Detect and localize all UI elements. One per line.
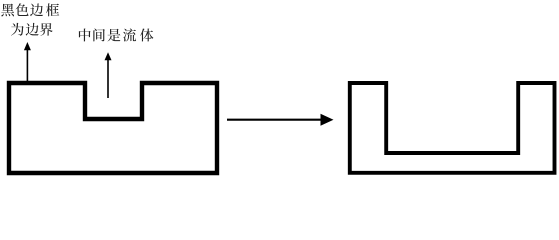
label: 中间是流体 (middle is fluid) bbox=[79, 28, 153, 41]
left block: rectangle with top notch (fluid domain) bbox=[9, 83, 217, 173]
label: 黑色边框为边界 (black border is the boundary) bbox=[1, 3, 59, 35]
right block: U-shaped boundary outline bbox=[350, 83, 555, 173]
arrow from fluid label into notch bbox=[105, 52, 112, 98]
arrow between blocks bbox=[227, 114, 334, 126]
arrow from boundary label to left block border bbox=[24, 42, 31, 84]
